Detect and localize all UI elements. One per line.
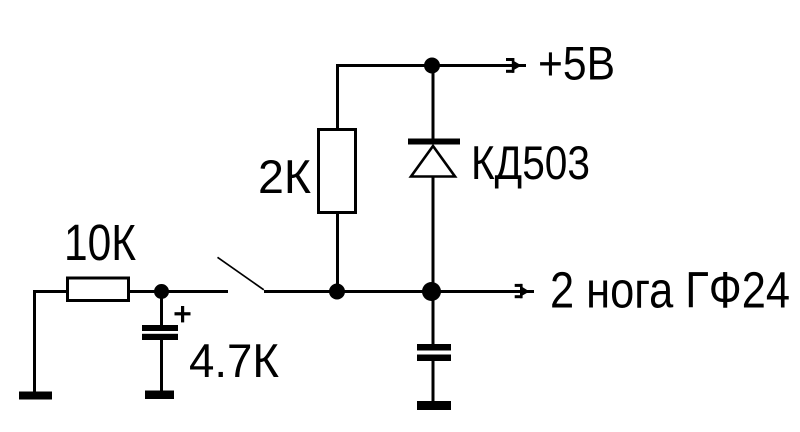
switch arm bbox=[218, 257, 264, 290]
wire C1 to ground bbox=[160, 340, 163, 392]
capacitor C2 bottom plate bbox=[417, 355, 451, 362]
ground under C2 bbox=[417, 401, 451, 410]
wire down to capacitor C1 bbox=[160, 291, 163, 326]
wire left corner vertical to ground bbox=[33, 290, 36, 392]
wire from 2K bottom to middle rail bbox=[336, 214, 339, 292]
wire middle rail left segment bbox=[34, 290, 228, 293]
node dot under 2K bbox=[329, 284, 345, 300]
wire top horizontal (+5V rail) bbox=[336, 64, 526, 67]
wire vertical +5V rail to diode bbox=[432, 64, 435, 139]
svg-text:4.7К: 4.7К bbox=[189, 335, 279, 388]
capacitor C2 top plate bbox=[417, 344, 451, 351]
svg-text:2 нога ГФ24: 2 нога ГФ24 bbox=[550, 262, 790, 319]
diode VD1 cathode bar bbox=[408, 139, 460, 145]
capacitor C1 top plate bbox=[142, 325, 178, 331]
arrow head +5V bbox=[506, 58, 522, 73]
capacitor C1 bottom plate bbox=[142, 334, 178, 340]
plus polarity sign bbox=[175, 306, 191, 322]
svg-text:+5В: +5В bbox=[538, 38, 615, 91]
resistor 2K body bbox=[319, 130, 356, 213]
wire C2 to ground bbox=[432, 361, 435, 402]
node dot on +5V rail bbox=[424, 58, 440, 74]
resistor 10K body bbox=[68, 278, 129, 301]
svg-text:2К: 2К bbox=[258, 151, 311, 204]
wire vertical from top rail corner down to R 2K bbox=[336, 64, 339, 130]
wire middle rail right segment bbox=[264, 290, 534, 293]
wire diode to middle rail bbox=[432, 177, 435, 292]
ground under C1 bbox=[145, 391, 174, 400]
svg-text:10К: 10К bbox=[64, 214, 136, 271]
node dot under diode bbox=[422, 282, 441, 301]
node dot at C 4.7 bbox=[154, 284, 169, 299]
arrow head output bbox=[515, 284, 530, 298]
ground left bar bbox=[19, 392, 52, 400]
diode VD1 triangle bbox=[411, 146, 455, 177]
wire diode node to capacitor C2 bbox=[432, 292, 435, 345]
svg-text:КД503: КД503 bbox=[471, 137, 590, 190]
